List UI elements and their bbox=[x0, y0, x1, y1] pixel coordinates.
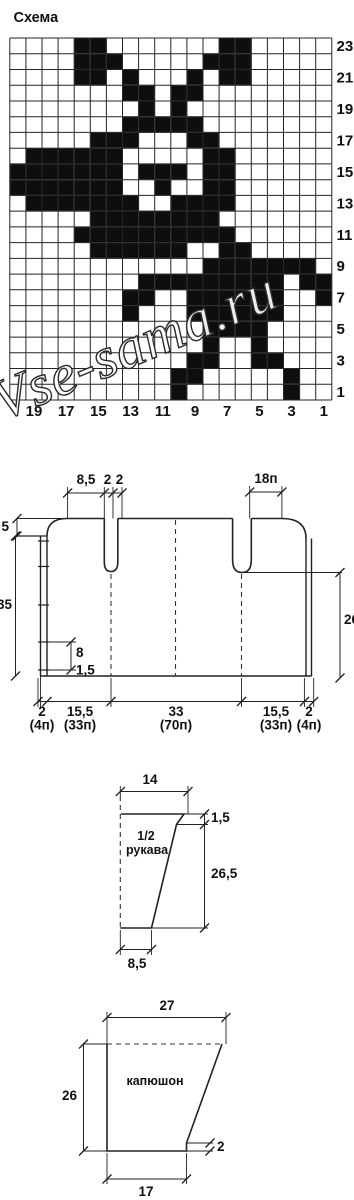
sleeve bottom ext bbox=[152, 927, 209, 929]
buttonhole ticks bbox=[38, 540, 49, 542]
bottom dimension line bbox=[38, 701, 314, 703]
svg-text:15: 15 bbox=[90, 403, 107, 420]
svg-text:1/2: 1/2 bbox=[137, 829, 154, 843]
svg-text:21: 21 bbox=[337, 69, 354, 86]
dim 26 bbox=[243, 572, 342, 574]
svg-text:3: 3 bbox=[287, 403, 295, 420]
svg-text:8,5: 8,5 bbox=[77, 472, 96, 487]
hood outline bbox=[107, 1044, 222, 1151]
dim 35 bbox=[15, 536, 17, 676]
garment body outline bbox=[41, 519, 312, 677]
svg-text:(4п): (4п) bbox=[297, 718, 322, 733]
svg-text:Схема: Схема bbox=[14, 10, 60, 26]
chart grid bbox=[10, 38, 332, 400]
dim 26,5 bbox=[204, 814, 206, 928]
svg-text:19: 19 bbox=[337, 101, 354, 118]
dim 26 hood bbox=[83, 1044, 85, 1151]
svg-text:1: 1 bbox=[337, 384, 345, 401]
svg-text:3: 3 bbox=[337, 353, 345, 370]
svg-text:(33п): (33п) bbox=[64, 718, 96, 733]
svg-text:27: 27 bbox=[159, 998, 174, 1013]
svg-text:(70п): (70п) bbox=[160, 718, 192, 733]
svg-text:1: 1 bbox=[320, 403, 328, 420]
sleeve outline bbox=[120, 814, 184, 928]
svg-text:9: 9 bbox=[191, 403, 199, 420]
svg-text:рукава: рукава bbox=[126, 843, 169, 857]
svg-text:14: 14 bbox=[142, 772, 158, 787]
svg-text:7: 7 bbox=[223, 403, 231, 420]
svg-text:13: 13 bbox=[122, 403, 139, 420]
svg-text:26: 26 bbox=[344, 612, 354, 627]
svg-text:8: 8 bbox=[76, 645, 84, 660]
dim 1,5 sleeve bbox=[184, 813, 208, 815]
dim 8,5 / 2 / 2 bbox=[68, 492, 122, 494]
knitting chart black cells bbox=[10, 38, 332, 400]
dim 18п bbox=[250, 491, 282, 493]
svg-text:5: 5 bbox=[255, 403, 263, 420]
svg-text:капюшон: капюшон bbox=[126, 1074, 183, 1088]
dim 8,5 sleeve bbox=[120, 949, 151, 951]
dim 2 hood bbox=[187, 1142, 214, 1144]
front bands bbox=[41, 536, 312, 676]
dashed centre lines bbox=[110, 574, 112, 676]
dim 5 bbox=[16, 519, 18, 537]
svg-text:18п: 18п bbox=[254, 471, 277, 486]
svg-text:11: 11 bbox=[155, 403, 171, 420]
svg-text:2: 2 bbox=[217, 1139, 225, 1154]
svg-text:9: 9 bbox=[337, 258, 345, 275]
svg-text:1,5: 1,5 bbox=[76, 663, 95, 678]
svg-text:13: 13 bbox=[337, 195, 354, 212]
svg-text:35: 35 bbox=[0, 597, 12, 612]
svg-text:17: 17 bbox=[337, 132, 354, 149]
svg-text:11: 11 bbox=[337, 227, 353, 244]
svg-text:8,5: 8,5 bbox=[128, 956, 147, 971]
svg-text:23: 23 bbox=[337, 38, 354, 55]
svg-text:2: 2 bbox=[116, 472, 124, 487]
svg-text:5: 5 bbox=[337, 321, 345, 338]
svg-text:5: 5 bbox=[1, 519, 9, 534]
watermark vse-sama.ru bbox=[0, 257, 287, 433]
svg-text:17: 17 bbox=[138, 1184, 153, 1199]
svg-text:26,5: 26,5 bbox=[211, 866, 238, 881]
dim 27 bbox=[107, 1017, 226, 1019]
front top edge line bbox=[17, 535, 47, 537]
svg-text:2: 2 bbox=[104, 472, 112, 487]
hood dashed top bbox=[107, 1043, 222, 1045]
dim 14 bbox=[120, 791, 188, 793]
svg-text:15: 15 bbox=[337, 164, 354, 181]
svg-text:(33п): (33п) bbox=[260, 718, 292, 733]
svg-text:(4п): (4п) bbox=[30, 718, 55, 733]
svg-text:1,5: 1,5 bbox=[211, 810, 230, 825]
svg-text:26: 26 bbox=[62, 1088, 78, 1103]
dim 8 and 1,5 bbox=[70, 642, 72, 670]
dim 17 bbox=[107, 1178, 187, 1180]
svg-text:7: 7 bbox=[337, 290, 345, 307]
sleeve dashed edge bbox=[119, 796, 121, 928]
